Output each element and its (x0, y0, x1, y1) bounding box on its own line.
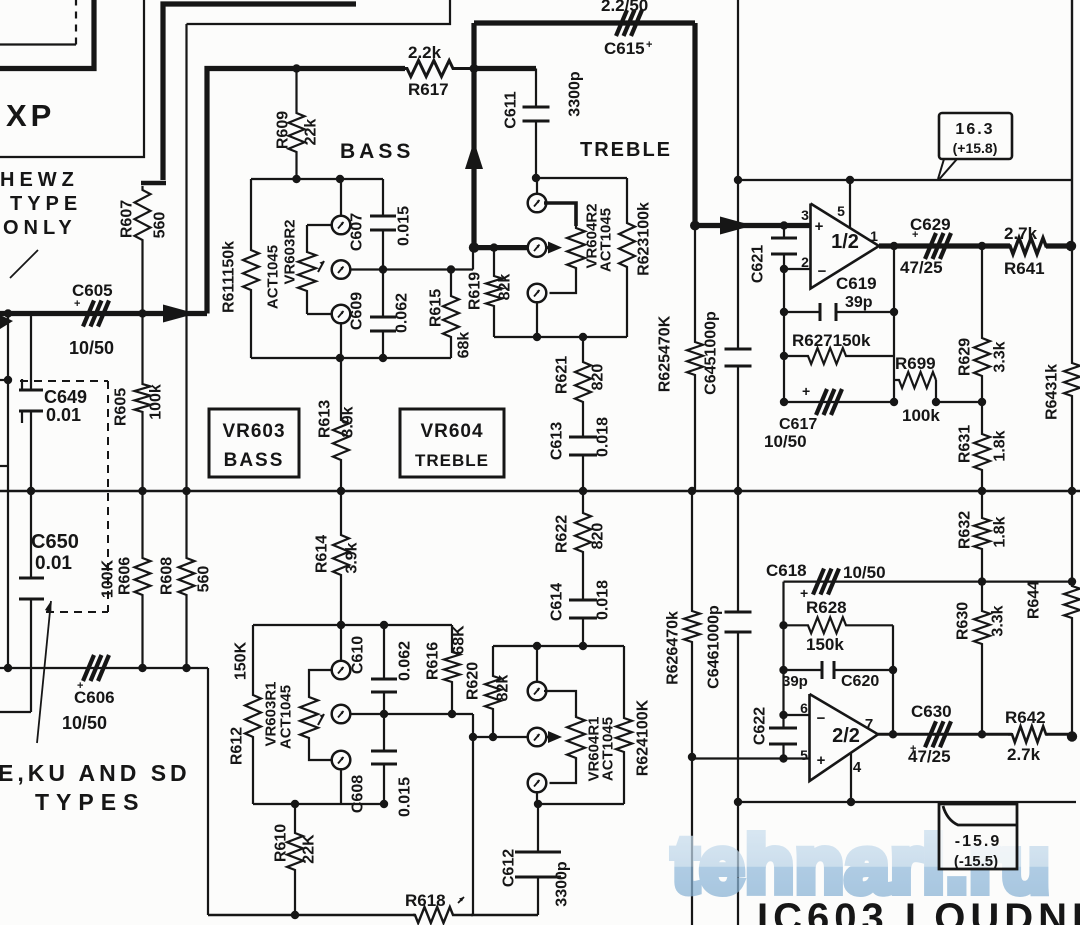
svg-text:HEWZ: HEWZ (0, 169, 79, 191)
pot terminal circle t2 (528, 238, 547, 257)
wire: pin5 line op2 (692, 757, 810, 759)
resistor R621 820 (575, 337, 591, 437)
pot terminal circle u1 (528, 682, 547, 701)
wire: bold out seg (1046, 243, 1071, 248)
svg-text:(+15.8): (+15.8) (953, 140, 998, 156)
svg-text:68k: 68k (456, 332, 473, 359)
resistor R644 (1064, 491, 1080, 737)
node out1 edge (1066, 241, 1076, 251)
svg-text:C621: C621 (750, 245, 767, 283)
node right c618 (1068, 577, 1076, 585)
svg-text:+: + (74, 298, 80, 310)
wire: x31 corner (0, 711, 31, 713)
node bass bottom b (379, 354, 387, 362)
resistor R620 82k (485, 646, 501, 737)
capacitor C621 (783, 226, 785, 239)
node c622 bottom (779, 754, 787, 762)
svg-text:10/50: 10/50 (764, 432, 807, 451)
resistor R629 3.3k (974, 246, 990, 402)
wire: t1 stub (536, 178, 538, 195)
node supply/C645 (734, 176, 742, 184)
node y668 a (138, 664, 146, 672)
capacitor C646 1000p (737, 491, 739, 612)
wire: top feed bar thick (163, 4, 356, 180)
wire: c612 bottom link (471, 914, 538, 916)
node treble2 top a (533, 642, 541, 650)
svg-text:R621: R621 (554, 356, 571, 394)
wire: treble2 pot top lead (544, 691, 576, 716)
wire: bass2 box top (253, 624, 452, 626)
svg-text:10/50: 10/50 (843, 563, 886, 582)
svg-text:VR604: VR604 (420, 421, 483, 442)
wire: treble2 box top (493, 645, 624, 647)
wire: main input line (thick) (0, 311, 207, 316)
svg-text:E,KU AND SD: E,KU AND SD (0, 760, 191, 786)
node rail r605 (138, 487, 146, 495)
svg-text:+: + (912, 229, 918, 241)
svg-text:+: + (802, 383, 810, 399)
svg-text:R613: R613 (317, 400, 334, 438)
capacitor C605 (electrolytic) (83, 301, 94, 327)
svg-text:1/2: 1/2 (831, 231, 859, 253)
svg-text:0.015: 0.015 (397, 777, 414, 817)
svg-text:R622: R622 (554, 515, 571, 553)
resistor R605 100k (135, 314, 151, 492)
wire: treble box bottom (494, 336, 627, 338)
wire: XP box frame corner (0, 0, 144, 157)
svg-text:10/50: 10/50 (62, 713, 107, 733)
svg-text:560: 560 (196, 566, 213, 593)
svg-text:ACT1045: ACT1045 (278, 685, 295, 749)
wire: fb right column x894 (893, 246, 895, 402)
pot terminal circle 2 (332, 260, 351, 279)
resistor R613 3.9k (333, 358, 349, 491)
svg-text:10/50: 10/50 (69, 338, 114, 358)
pointer to E KU note (37, 601, 51, 743)
capacitor C607 0.015 (382, 179, 384, 216)
capacitor C649 0.01 (19, 389, 43, 392)
wire: C606 line (0, 667, 208, 669)
signal arrow into op1 (720, 217, 753, 235)
svg-text:TYPES: TYPES (35, 789, 145, 815)
node rail r613 (337, 487, 345, 495)
svg-text:R641: R641 (1004, 259, 1045, 278)
svg-text:0.018: 0.018 (595, 580, 612, 620)
svg-text:C617: C617 (779, 416, 817, 433)
svg-text:C630: C630 (911, 702, 952, 721)
resistor R631 1.8k (974, 402, 990, 491)
wire: mid supply rail (0, 490, 1080, 493)
wire: u3 stub (536, 792, 538, 805)
svg-text:4: 4 (853, 759, 862, 776)
capacitor C611 3300p (535, 69, 537, 108)
svg-text:R624100K: R624100K (635, 699, 652, 776)
svg-text:2.2k: 2.2k (408, 43, 442, 62)
wire: thick top link to C611 corner (474, 66, 536, 71)
svg-text:ACT1045: ACT1045 (265, 245, 282, 309)
potentiometer VR604R1 (567, 715, 585, 760)
wire: treble wiper riser (thick) (471, 23, 476, 248)
svg-text:XP: XP (6, 98, 55, 133)
svg-text:R609: R609 (275, 111, 292, 149)
svg-text:1.8k: 1.8k (992, 430, 1009, 461)
node c620 l (779, 666, 787, 674)
svg-text:100k: 100k (902, 406, 940, 425)
node R625 rail (688, 487, 696, 495)
svg-text:C608: C608 (350, 775, 367, 813)
svg-text:C618: C618 (766, 561, 807, 580)
svg-text:22K: 22K (301, 834, 318, 864)
resistor R617 2.2k (thick line) (405, 61, 474, 77)
resistor R699 100k (894, 372, 936, 388)
node right rail (1068, 487, 1076, 495)
pot terminal circle u3 (528, 774, 547, 793)
node c619 r (890, 308, 898, 316)
resistor R625 470K (687, 226, 703, 492)
signal arrow right (163, 305, 196, 323)
node bass2 top a (337, 621, 345, 629)
node c646 y802 (734, 798, 742, 806)
wire: R699 to R629 node (936, 401, 982, 403)
svg-text:560: 560 (152, 212, 169, 239)
wire: op1 output (bold) (879, 243, 1010, 248)
resistor R607 (135, 186, 151, 314)
wire: treble2 wiper line (473, 736, 529, 738)
capacitor C613 0.018 (569, 436, 597, 439)
svg-text:R631: R631 (957, 425, 974, 463)
node x473 wiper2 (469, 733, 477, 741)
svg-text:C614: C614 (549, 583, 566, 621)
node c618 r (978, 577, 986, 585)
resistor R642 2.7k (1008, 726, 1048, 742)
resistor R630 3.3k (974, 582, 990, 735)
node R617/riser junction (470, 64, 479, 73)
wire: left stub x8 (7, 314, 9, 669)
svg-text:R626470k: R626470k (665, 611, 682, 685)
svg-text:R644: R644 (1026, 581, 1043, 619)
svg-text:150k: 150k (806, 635, 844, 654)
node C645 rail (734, 487, 742, 495)
svg-text:-15.9: -15.9 (955, 833, 1001, 850)
node out2 b (978, 730, 986, 738)
box VR604 TREBLE (400, 409, 504, 477)
wire: bass2 box bottom (253, 803, 384, 805)
svg-text:R699: R699 (895, 354, 936, 373)
node: input corner (138, 309, 146, 317)
svg-text:R630: R630 (955, 602, 972, 640)
node bass2 bot b (380, 800, 388, 808)
capacitor C609 0.062 (382, 270, 384, 318)
node c617 r (890, 398, 898, 406)
svg-text:C613: C613 (549, 422, 566, 460)
wire: thick riser x207 (207, 69, 405, 314)
svg-text:0.062: 0.062 (394, 293, 411, 333)
pot terminal circle t3 (528, 284, 547, 303)
node out2 a (889, 730, 897, 738)
node treble bottom b (579, 333, 587, 341)
resistor R628 150k (784, 617, 894, 633)
svg-text:1: 1 (870, 228, 878, 244)
resistor R611 150k (left side) (243, 179, 259, 358)
node c619 l (780, 308, 788, 316)
svg-text:2: 2 (801, 254, 809, 270)
svg-text:0.062: 0.062 (397, 641, 414, 681)
wire: treble box top (536, 177, 627, 179)
node C611/treble top (532, 174, 540, 182)
svg-text:R616: R616 (425, 642, 442, 680)
capacitor C606 (electrolytic) (83, 655, 94, 681)
wire: left stub x31 (30, 314, 32, 391)
wire: left drop x208 (207, 668, 209, 915)
svg-text:39p: 39p (845, 294, 873, 311)
wire: fb column op2 (782, 582, 784, 715)
node bass2 bot a (291, 800, 299, 808)
svg-text:R614: R614 (314, 535, 331, 573)
svg-text:0.01: 0.01 (46, 405, 81, 425)
wire: fb right column op2 (892, 625, 894, 734)
svg-text:R629: R629 (957, 338, 974, 376)
svg-text:VR603R2: VR603R2 (282, 219, 299, 284)
resistor R615 68k (443, 270, 459, 359)
wiper arrow treble (546, 246, 553, 249)
flag +16.3 (939, 113, 1012, 159)
potentiometer VR603R1 (300, 695, 318, 740)
svg-text:3.9k: 3.9k (344, 542, 361, 573)
svg-text:0.01: 0.01 (35, 553, 72, 574)
svg-text:16.3: 16.3 (955, 121, 994, 138)
svg-text:R623100k: R623100k (636, 202, 653, 276)
pot terminal circle 1 (332, 216, 351, 235)
wire: top bold line with C615 (474, 20, 695, 25)
wire: t3 stub (536, 302, 538, 338)
resistor R619 82k (486, 248, 502, 337)
node r627 l (780, 352, 788, 360)
capacitor C614 0.018 (569, 599, 597, 602)
capacitor C630 47/25 (925, 721, 936, 747)
wire: out2 seg (1046, 733, 1071, 736)
pot terminal circle u2 (528, 728, 547, 747)
svg-text:82k: 82k (495, 675, 512, 702)
resistor R643 1k (1064, 246, 1080, 491)
resistor R623 100k (619, 178, 635, 337)
wire: op2 output (878, 733, 1012, 736)
svg-text:R627150k: R627150k (792, 331, 871, 350)
svg-text:−: − (817, 710, 826, 727)
node bass top b (336, 175, 344, 183)
svg-text:R605: R605 (113, 388, 130, 426)
pot terminal circle b2 (332, 705, 351, 724)
wire: bass box top (251, 178, 383, 180)
svg-text:3.3k: 3.3k (990, 605, 1007, 636)
svg-text:C610: C610 (350, 636, 367, 674)
svg-text:C650: C650 (31, 531, 79, 553)
wire: bass box bottom (251, 357, 451, 359)
svg-text:R618: R618 (405, 891, 446, 910)
node mid2/c608 (380, 710, 388, 718)
node out1 a (890, 242, 898, 250)
svg-text:R628: R628 (806, 598, 847, 617)
pointer to HEWZ note (10, 250, 38, 278)
node r626 pin5 (688, 753, 696, 761)
svg-text:3.3k: 3.3k (992, 341, 1009, 372)
capacitor C629 47/25 (925, 233, 936, 259)
svg-text:39p: 39p (782, 673, 808, 690)
capacitor C618 (electrolytic) (784, 580, 1073, 582)
resistor R616 68K (444, 625, 460, 714)
capacitor C650 0.01 (19, 577, 44, 580)
node supply/pin5 (846, 176, 854, 184)
node op1 input branch (690, 221, 700, 231)
capacitor C617 (electrolytic) (816, 389, 827, 415)
node treble2 bottom (534, 800, 542, 808)
svg-text:C609: C609 (349, 292, 366, 330)
capacitor C612 3300p (537, 804, 539, 852)
capacitor C608 0.015 (383, 714, 385, 751)
arrow r618 (458, 897, 464, 903)
wire: supply drop x738 (737, 0, 739, 180)
svg-text:R617: R617 (408, 80, 449, 99)
svg-text:68K: 68K (451, 625, 468, 655)
svg-text:R625470K: R625470K (657, 315, 674, 392)
signal arrow up (465, 141, 483, 169)
svg-text:R620: R620 (465, 662, 482, 700)
resistor R606 100K (135, 491, 151, 668)
node treble bottom a (533, 333, 541, 341)
svg-text:7: 7 (865, 716, 873, 733)
svg-text:IC603 LOUDNES: IC603 LOUDNES (757, 896, 1080, 925)
node mid/C607 (379, 265, 387, 273)
wire: u1 stub (536, 646, 538, 683)
svg-text:+: + (910, 743, 916, 755)
node rail r608 (182, 487, 190, 495)
wire: treble pot top lead (bold) (544, 203, 576, 226)
svg-text:100k: 100k (148, 384, 165, 420)
wire: top-left dashed frame corner (0, 43, 76, 45)
capacitor C620 39p (784, 669, 823, 671)
svg-text:+: + (77, 680, 83, 692)
svg-text:BASS: BASS (224, 450, 285, 471)
wire: c3 stub (340, 323, 342, 359)
resistor R632 1.8k (974, 491, 990, 582)
edge blob (0, 315, 13, 329)
resistor R626 470k (684, 491, 700, 925)
svg-text:3300p: 3300p (567, 71, 584, 117)
node r628 l (779, 621, 787, 629)
node pin2 (780, 265, 788, 273)
wire: treble2 box bottom (538, 803, 624, 805)
resistor R612 150K (245, 625, 261, 804)
node c620 r (889, 666, 897, 674)
pot terminal circle b1 (332, 661, 351, 680)
svg-text:22k: 22k (303, 119, 320, 146)
svg-text:R615: R615 (428, 289, 445, 327)
svg-text:R612: R612 (229, 727, 246, 765)
node r629/r631 (978, 398, 986, 406)
node r699 corner (932, 398, 940, 406)
wire: right edge vertical (1071, 0, 1073, 246)
wire: bass2 mid line (350, 713, 474, 715)
wire: riser x473 (472, 714, 474, 915)
node mid/R615 (447, 265, 455, 273)
resistor R627 150k (784, 348, 894, 364)
wire: pin6 line (784, 714, 810, 716)
node pin6 (779, 711, 787, 719)
node r631 rail (978, 487, 986, 495)
wire: pin2 line (784, 268, 811, 270)
svg-text:47/25: 47/25 (900, 258, 943, 277)
resistor R641 2.7k (bold) (1008, 238, 1048, 254)
svg-text:0.015: 0.015 (396, 206, 413, 246)
node R619 top (490, 243, 498, 251)
pot terminal circle 3 (332, 305, 351, 324)
svg-text:R619: R619 (467, 272, 484, 310)
wire: bold wiper feed (474, 245, 529, 250)
node x8 a (4, 309, 12, 317)
node mid2/r616 (448, 710, 456, 718)
svg-text:R642: R642 (1005, 708, 1046, 727)
potentiometer VR604R2 (567, 225, 585, 270)
svg-text:+: + (817, 752, 826, 769)
svg-text:R610: R610 (273, 824, 290, 862)
node rail x31 (27, 487, 35, 495)
node c617 l (780, 398, 788, 406)
svg-text:82k: 82k (497, 274, 514, 301)
node op1 in dot (780, 221, 788, 229)
node bottom r610 (291, 911, 299, 919)
node pin4 (847, 798, 855, 806)
svg-text:2/2: 2/2 (832, 725, 860, 747)
node x8 c (4, 664, 12, 672)
wiper arrow treble2 (546, 736, 553, 739)
pot terminal circle t1 (528, 194, 547, 213)
capacitor C645 1000p (737, 180, 739, 349)
op-amp U2 (2/2) (810, 694, 879, 781)
resistor R622 820 (575, 491, 591, 600)
svg-text:R611150k: R611150k (221, 241, 238, 313)
svg-text:2.7k: 2.7k (1007, 745, 1041, 764)
node bass bottom a (336, 354, 344, 362)
svg-text:+: + (646, 39, 652, 51)
wire: treble pot bottom lead (550, 268, 577, 293)
svg-text:−: − (818, 263, 827, 280)
svg-text:TYPE: TYPE (10, 193, 82, 215)
wire: pin4 drop (850, 753, 852, 802)
svg-text:0.018: 0.018 (595, 417, 612, 457)
wire: b3 stub (340, 769, 342, 805)
svg-text:C607: C607 (349, 213, 366, 251)
wire: bold op1 input line (695, 223, 810, 228)
wire: top-left thick frame corner (0, 0, 94, 69)
resistor R608 560 (179, 491, 195, 668)
node treble wiper junction (469, 242, 479, 252)
pot terminal circle b3 (332, 751, 351, 770)
wire: supply rail y180 (738, 179, 1072, 181)
svg-text:R607: R607 (119, 200, 136, 238)
svg-text:C649: C649 (44, 387, 87, 407)
resistor R614 3.9k (333, 491, 349, 625)
svg-text:R6431k: R6431k (1044, 364, 1061, 420)
svg-text:ONLY: ONLY (3, 217, 77, 239)
node R609 top (292, 64, 300, 72)
node bass2 top b (380, 621, 388, 629)
wire: feedback column x784 (783, 269, 785, 402)
node r620 bottom (489, 733, 497, 741)
capacitor C610 0.062 (383, 625, 385, 679)
resistor R618 (413, 907, 473, 923)
pot wiper arrow 2 (318, 714, 324, 725)
dashed option box (20, 380, 108, 382)
resistor R609 22k (289, 69, 305, 180)
